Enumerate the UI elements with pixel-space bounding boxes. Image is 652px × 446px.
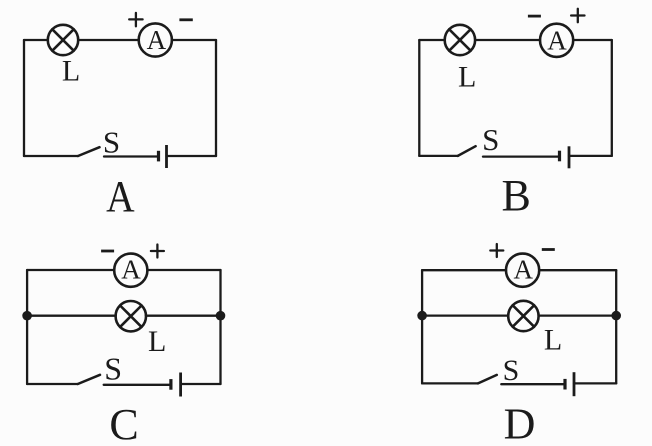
wire: C switch fixed contact line (104, 384, 171, 386)
svg-text:L: L (458, 61, 476, 94)
wire: A right vertical (215, 40, 217, 156)
wire: A top middle segment (78, 39, 139, 41)
battery cell (circuit D): short negative plate (563, 379, 566, 390)
junction node (circuit C right) (216, 311, 226, 321)
svg-text:L: L (62, 55, 80, 88)
switch S (circuit B) (458, 146, 476, 156)
battery cell (circuit C): tall positive plate (179, 373, 182, 397)
wire: B top-left segment (419, 39, 445, 41)
plus terminal mark (circuit B ammeter) (571, 9, 584, 22)
wire: D bottom-right segment (574, 382, 616, 384)
svg-text:S: S (104, 351, 122, 387)
wire: C bottom-left segment (27, 383, 78, 385)
svg-text:S: S (503, 354, 520, 387)
svg-text:B: B (502, 171, 531, 220)
svg-text:A: A (106, 172, 135, 221)
wire: D switch fixed contact line (501, 383, 565, 385)
svg-text:L: L (148, 325, 166, 358)
svg-text:A: A (147, 25, 167, 55)
switch S (circuit D) (478, 375, 497, 384)
switch S (circuit A) (78, 147, 100, 156)
lamp L (circuit A) (48, 25, 78, 55)
wire: A top-right segment (172, 39, 216, 41)
svg-text:C: C (109, 400, 138, 446)
svg-text:A: A (121, 255, 141, 285)
svg-text:A: A (547, 25, 567, 55)
wire: A switch fixed contact line (104, 155, 158, 157)
wire: D right vertical (615, 270, 617, 383)
wire: B bottom-left segment (419, 155, 458, 157)
wire: D top-right segment (539, 269, 616, 271)
lamp L (circuit B) (445, 25, 475, 55)
plus terminal mark (circuit A ammeter) (129, 13, 142, 26)
battery cell (circuit B): tall positive plate (568, 146, 571, 168)
wire: C middle-left branch segment (27, 315, 116, 317)
wire: D top-left segment (422, 269, 506, 271)
ammeter A1 (circuit A) (139, 23, 172, 56)
wire: D bottom-left segment (422, 382, 478, 384)
wire: C top-left segment (27, 269, 114, 271)
ammeter A3 (circuit C) (114, 254, 147, 287)
minus terminal mark (circuit C ammeter) (101, 250, 114, 253)
wire: B left vertical (418, 40, 420, 156)
wire: C bottom-right segment (181, 383, 221, 385)
plus terminal mark (circuit D ammeter) (490, 244, 503, 257)
wire: A top-left segment (24, 39, 48, 41)
svg-text:L: L (544, 324, 562, 357)
battery cell (circuit A): tall positive plate (165, 145, 168, 168)
switch S (circuit C) (78, 375, 100, 384)
junction node (circuit D right) (611, 311, 621, 321)
ammeter A4 (circuit D) (506, 254, 539, 287)
svg-text:S: S (482, 122, 499, 157)
battery cell (circuit D): tall positive plate (573, 372, 576, 396)
wire: D middle-left branch segment (422, 314, 508, 316)
battery cell (circuit C): short negative plate (169, 379, 172, 390)
svg-text:S: S (103, 124, 120, 159)
svg-text:D: D (504, 400, 536, 446)
ammeter A2 (circuit B) (540, 24, 573, 57)
wire: B right vertical (611, 40, 613, 156)
wire: D middle-right branch segment (539, 314, 617, 316)
wire: C top-right segment (147, 269, 220, 271)
battery cell (circuit A): short negative plate (157, 151, 160, 162)
wire: B bottom-right segment (569, 155, 612, 157)
wire: C left vertical (26, 270, 28, 384)
wire: B top middle segment (475, 39, 540, 41)
minus terminal mark (circuit B ammeter) (528, 15, 541, 18)
wire: C middle-right branch segment (146, 315, 221, 317)
battery cell (circuit B): short negative plate (558, 151, 561, 162)
wire: D left vertical (421, 270, 423, 383)
wire: A bottom-left segment (24, 155, 78, 157)
wire: A bottom-right segment (167, 155, 217, 157)
wire: B top-right segment (573, 39, 612, 41)
lamp L (circuit D) (508, 301, 538, 331)
wire: C right vertical (219, 270, 221, 384)
junction node (circuit D left) (417, 311, 427, 321)
wire: B switch fixed contact line (483, 155, 559, 157)
minus terminal mark (circuit D ammeter) (542, 248, 555, 251)
junction node (circuit C left) (22, 311, 32, 321)
lamp L (circuit C) (116, 301, 146, 331)
wire: A left vertical (23, 40, 25, 156)
svg-text:A: A (514, 255, 534, 285)
plus terminal mark (circuit C ammeter) (151, 245, 164, 258)
minus terminal mark (circuit A ammeter) (179, 18, 192, 21)
